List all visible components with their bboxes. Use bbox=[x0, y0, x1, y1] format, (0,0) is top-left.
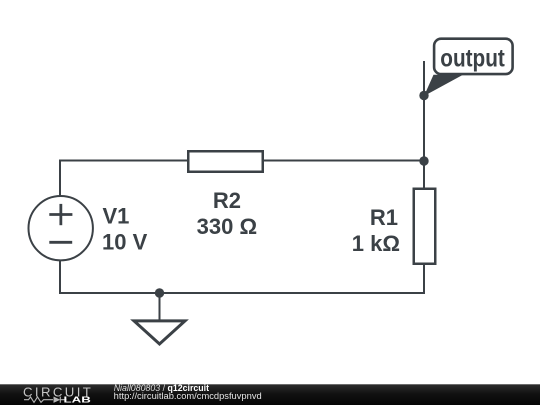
svg-text:LAB: LAB bbox=[64, 395, 92, 404]
svg-text:output: output bbox=[440, 45, 505, 73]
svg-text:http://circuitlab.com/cmcdpsfu: http://circuitlab.com/cmcdpsfuvpnvd bbox=[114, 391, 262, 401]
svg-text:R1: R1 bbox=[370, 205, 398, 230]
svg-text:330 Ω: 330 Ω bbox=[197, 214, 257, 239]
svg-text:10 V: 10 V bbox=[102, 230, 148, 255]
svg-text:V1: V1 bbox=[103, 204, 130, 229]
svg-text:1 kΩ: 1 kΩ bbox=[352, 231, 400, 256]
svg-text:R2: R2 bbox=[213, 188, 241, 213]
